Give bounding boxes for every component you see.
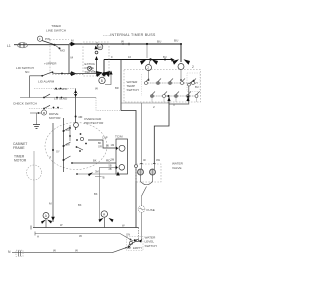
jog wire to V1	[121, 111, 136, 228]
motor internal contacts	[69, 125, 71, 141]
svg-text:WATER: WATER	[172, 162, 184, 166]
level switch contact	[129, 241, 132, 244]
svg-text:BR: BR	[98, 46, 102, 50]
junction diamond	[102, 72, 107, 77]
svg-text:2: 2	[153, 105, 155, 109]
junction dot and stub on H1	[146, 43, 148, 45]
svg-text:TC/M: TC/M	[115, 135, 123, 139]
svg-text:LINE SWITCH: LINE SWITCH	[46, 29, 66, 33]
svg-text:CAP: CAP	[102, 136, 108, 140]
svg-text:16: 16	[128, 55, 131, 59]
wire motor winding to start contact column	[52, 123, 54, 222]
contact stubs below temp switch row 2	[152, 98, 197, 103]
wire stub from circled B to x111	[105, 71, 111, 85]
junction dot on H3	[149, 58, 151, 60]
circled contact left bottom	[41, 220, 46, 224]
svg-text:2: 2	[192, 65, 194, 69]
svg-text:1M: 1M	[66, 128, 70, 132]
svg-text:B: B	[101, 79, 103, 83]
svg-text:W: W	[106, 144, 109, 148]
wire fuse to water level switch	[141, 212, 143, 240]
valve solenoid coil 2	[153, 164, 155, 170]
svg-text:2Y: 2Y	[195, 81, 198, 85]
wire internal timer buss H1	[69, 43, 181, 45]
svg-text:ON: ON	[126, 233, 130, 237]
svg-text:2B: 2B	[109, 168, 112, 171]
wire L1 lead	[14, 44, 69, 46]
inner dashed partition left	[141, 74, 143, 96]
circled contact right bottom	[99, 218, 104, 222]
svg-text:4W: 4W	[156, 158, 160, 162]
svg-text:SWITCH: SWITCH	[127, 88, 139, 92]
wire temp box bottom to fuse column	[121, 102, 169, 104]
vertical wire from H3 down left of temp box	[120, 60, 122, 111]
wire into motor from half-speed row	[75, 89, 77, 131]
junction dot on H3 right	[164, 59, 166, 61]
wire timer buss H3	[104, 59, 172, 61]
svg-text:BK: BK	[78, 203, 82, 207]
temp switch contact row 2	[151, 92, 200, 98]
connector arrows on motor feed	[74, 90, 78, 97]
svg-text:2M: 2M	[111, 158, 115, 162]
contact circled 2 under buss (right)	[173, 59, 180, 65]
junction bead on V1	[135, 165, 138, 168]
svg-text:2M: 2M	[66, 143, 70, 147]
contact group circled B below diamond	[96, 71, 103, 77]
svg-text:SWITCH: SWITCH	[145, 244, 157, 248]
ground cabinet frame	[36, 113, 38, 125]
svg-text:M: M	[71, 56, 74, 60]
svg-text:CHECK SWITCH: CHECK SWITCH	[13, 102, 37, 106]
svg-text:PW: PW	[45, 37, 50, 41]
svg-text:M: M	[49, 202, 52, 206]
motor run winding wire	[88, 140, 116, 148]
svg-text:-----INTERNAL TIMER BUSS: -----INTERNAL TIMER BUSS	[103, 33, 156, 37]
fuse	[141, 196, 143, 206]
svg-text:1M: 1M	[111, 143, 115, 147]
stubs from contacts to circles above	[149, 70, 182, 81]
svg-text:LID ALARM: LID ALARM	[38, 80, 55, 84]
svg-text:BK: BK	[93, 159, 97, 163]
connector arrow on motor lower wire	[88, 172, 93, 176]
svg-text:GY: GY	[56, 150, 60, 154]
svg-text:BK: BK	[94, 192, 98, 196]
inner dashed partition right	[187, 73, 200, 92]
svg-text:EMPTY: EMPTY	[133, 246, 142, 250]
svg-text:A: A	[45, 214, 48, 218]
svg-text:W: W	[75, 249, 78, 253]
terminal circled 3 on line	[37, 36, 42, 41]
motor start winding wire	[72, 162, 116, 164]
temp switch contact row 1	[145, 79, 197, 85]
wire level switch to neutral line	[112, 247, 128, 253]
extra rinse switch contacts	[96, 42, 98, 49]
svg-text:M: M	[71, 39, 74, 43]
wire check row to motor column	[96, 98, 121, 111]
valve solenoid coil 1	[140, 164, 142, 170]
svg-text:BU: BU	[195, 85, 199, 89]
svg-text:NC: NC	[25, 70, 30, 74]
wire H3 corner down	[103, 60, 105, 74]
svg-text:FUSE: FUSE	[147, 208, 155, 212]
svg-text:2: 2	[50, 155, 52, 159]
wire to motor circle	[30, 112, 42, 114]
svg-text:BU: BU	[157, 40, 161, 44]
svg-text:MO: MO	[60, 49, 66, 53]
svg-text:9: 9	[111, 55, 113, 59]
drive motor label	[41, 110, 46, 115]
svg-text:N: N	[8, 250, 11, 254]
svg-text:4F: 4F	[143, 158, 146, 162]
connector plug on N	[16, 250, 23, 256]
water level switch cluster	[127, 237, 144, 251]
svg-text:BU: BU	[163, 55, 167, 59]
svg-text:7B: 7B	[102, 177, 105, 180]
terminal circled BR under buss	[97, 44, 103, 50]
svg-text:FRAME: FRAME	[13, 146, 25, 150]
svg-text:M: M	[43, 111, 46, 115]
svg-text:OR: OR	[98, 146, 102, 149]
svg-text:MOTOR: MOTOR	[49, 116, 61, 120]
wire neutral	[12, 252, 112, 254]
svg-text:3M: 3M	[95, 170, 99, 174]
wire buss corner down to temp switch contact	[180, 44, 182, 62]
right partition contact	[188, 83, 191, 86]
wire timer motor column	[33, 151, 35, 228]
wire cold valve feed from buss	[140, 103, 142, 164]
svg-text:3: 3	[39, 37, 41, 41]
svg-text:4M: 4M	[78, 115, 83, 119]
svg-text:W: W	[53, 249, 56, 253]
drive motor dashed ellipse	[45, 123, 107, 170]
wire A drop to level switch	[138, 228, 140, 240]
junction dots in temp switch	[148, 79, 150, 81]
svg-text:W: W	[60, 223, 63, 227]
motor lower wire	[77, 173, 116, 175]
connector arrow on lid row	[70, 71, 77, 76]
wire right contact down to valve feed	[169, 86, 189, 104]
svg-text:BR: BR	[115, 86, 119, 90]
svg-text:W: W	[79, 234, 82, 238]
bottom wire B	[35, 234, 133, 242]
wire timer switch down to lid switch	[68, 45, 70, 74]
svg-text:TIMER: TIMER	[51, 24, 61, 28]
wire valve outputs merge	[141, 175, 153, 185]
svg-text:+UPPER: +UPPER	[44, 62, 57, 66]
svg-text:W: W	[122, 224, 125, 228]
dashed edge timer line switch box	[50, 40, 83, 75]
dashed box water valve	[136, 164, 161, 182]
svg-text:MOTOR: MOTOR	[14, 159, 27, 163]
svg-text:A: A	[37, 235, 40, 239]
extra rinse lower terminal	[87, 66, 91, 70]
svg-text:W: W	[121, 40, 124, 44]
svg-text:A: A	[103, 213, 106, 217]
svg-text:PROTECTOR: PROTECTOR	[84, 121, 104, 125]
svg-text:L1: L1	[7, 44, 11, 48]
bottom wire A	[33, 227, 139, 229]
dashed box water temp switch	[124, 70, 201, 103]
motor internal left bus	[63, 118, 65, 172]
vertical joining lid rows	[29, 76, 31, 98]
svg-text:W: W	[95, 87, 98, 91]
svg-text:+1/2 SPD: +1/2 SPD	[54, 87, 68, 91]
svg-text:VALVE: VALVE	[172, 166, 182, 170]
connector plug on L1	[18, 43, 28, 48]
connector arrow M on buss	[70, 42, 76, 46]
wire TC contact to spin contact column	[100, 166, 116, 168]
wire hot water valve feed	[154, 97, 169, 164]
svg-text:BU: BU	[174, 39, 178, 43]
connector arrow on start column	[51, 217, 55, 221]
contact circled 2 under buss (left)	[140, 59, 147, 65]
timer line switch blade	[42, 41, 55, 45]
connector arrow end of H3	[171, 58, 175, 62]
dashed box extra rinse switch	[83, 42, 109, 76]
junction dot at buss corner	[180, 43, 182, 45]
